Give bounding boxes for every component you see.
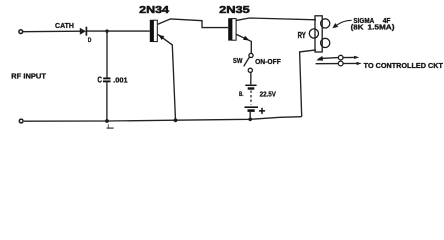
- svg-text:ON-OFF: ON-OFF: [255, 57, 281, 66]
- svg-text:C: C: [97, 74, 102, 84]
- svg-text:D: D: [88, 37, 92, 44]
- svg-text:SW: SW: [233, 56, 243, 65]
- svg-text:B.: B.: [239, 91, 244, 98]
- svg-text:2N34: 2N34: [139, 5, 169, 16]
- svg-text:CATH: CATH: [55, 21, 74, 30]
- svg-text:RF INPUT: RF INPUT: [11, 72, 46, 81]
- svg-text:(8K: (8K: [351, 25, 364, 32]
- svg-text:RY: RY: [298, 30, 306, 40]
- svg-text:.001: .001: [113, 75, 127, 84]
- svg-text:1.5MA): 1.5MA): [368, 25, 395, 32]
- svg-text:2N35: 2N35: [219, 5, 250, 16]
- svg-text:22.5V: 22.5V: [260, 90, 277, 99]
- svg-text:TO CONTROLLED CKT: TO CONTROLLED CKT: [364, 63, 444, 70]
